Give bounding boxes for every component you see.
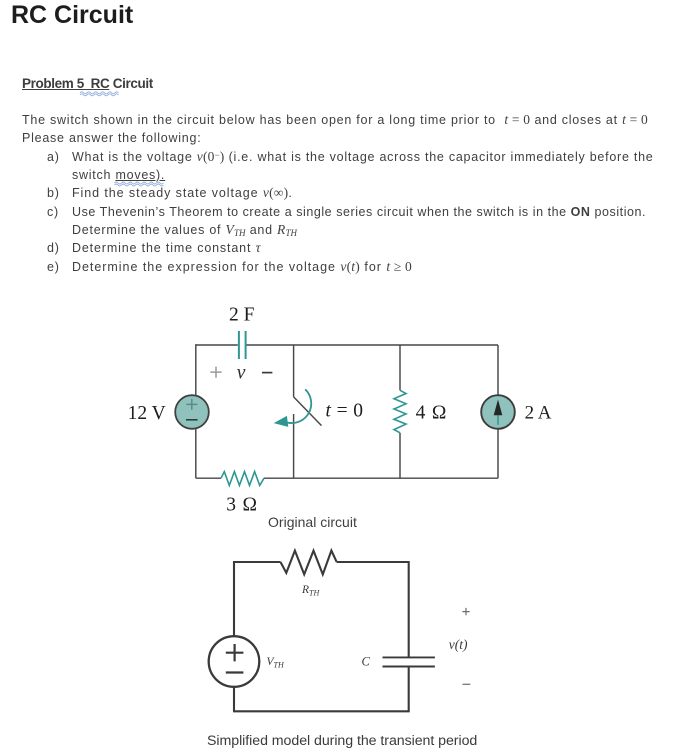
page title	[11, 2, 133, 29]
resistor RTH zigzag	[281, 551, 337, 575]
svg-text:2 A: 2 A	[525, 403, 552, 424]
grammar wavy under "moves)."	[115, 182, 164, 186]
svg-text:C: C	[362, 655, 371, 669]
wire left upper	[195, 344, 197, 396]
voltage source plus	[186, 399, 197, 410]
label 2 A	[525, 403, 552, 424]
wire top-left (node A to capacitor)	[196, 344, 238, 346]
wire switch branch upper	[293, 345, 295, 397]
label 3 ohm	[226, 495, 258, 516]
label minus (vt polarity)	[463, 683, 471, 685]
svg-text:t = 0: t = 0	[326, 400, 364, 421]
wire right lower	[497, 428, 499, 478]
paragraph line 2	[22, 131, 201, 145]
wire right upper	[497, 345, 499, 396]
current source arrow head	[494, 400, 503, 416]
switch arrow head	[274, 416, 289, 427]
wire bottom-left segment	[196, 477, 221, 479]
list c	[47, 205, 59, 219]
svg-text:2 F: 2 F	[229, 305, 255, 326]
paragraph line 1	[22, 113, 648, 127]
wire c2 top-left to resistor	[233, 561, 281, 563]
label + (vt polarity)	[462, 608, 469, 615]
label VTH	[267, 656, 285, 670]
list b	[47, 186, 60, 200]
resistor 4 ohm zigzag	[394, 390, 406, 433]
label minus (cap polarity)	[262, 372, 272, 374]
problem heading	[22, 76, 153, 92]
label 12 V	[128, 403, 166, 424]
current source arrow shaft	[497, 413, 499, 425]
caption: Original circuit	[268, 515, 357, 529]
wire bottom-right segment	[264, 477, 498, 479]
voltage source minus	[186, 419, 198, 421]
VTH plus sign	[226, 644, 244, 661]
svg-text:12 V: 12 V	[128, 403, 166, 424]
grammar wavy under heading "5 RC"	[80, 92, 119, 96]
wire switch branch lower	[293, 414, 295, 478]
voltage source 12V circle	[175, 395, 209, 429]
svg-text:RTH: RTH	[301, 584, 320, 598]
wire 4-ohm branch upper	[399, 345, 401, 390]
wire c2 resistor to top-right	[337, 561, 409, 563]
wire c2 bottom	[233, 710, 410, 712]
wire c2 left lower	[233, 687, 235, 712]
resistor 3 ohm zigzag	[221, 472, 264, 486]
wire left lower	[195, 428, 197, 478]
capacitor C plate top	[383, 656, 435, 658]
wire c2 right lower	[408, 667, 410, 712]
label RTH	[301, 584, 320, 598]
wire 4-ohm branch lower	[399, 433, 401, 478]
VTH minus sign	[226, 671, 244, 673]
list d	[47, 241, 60, 255]
label v (cap voltage)	[237, 362, 246, 383]
caption: Simplified model	[207, 734, 477, 748]
list a	[47, 150, 60, 164]
capacitor C plate bottom	[383, 666, 435, 668]
label v(t)	[449, 637, 468, 652]
capacitor C 2F plates	[239, 331, 246, 359]
label + (cap polarity)	[210, 367, 221, 378]
wire c2 right upper	[408, 561, 410, 657]
label t = 0	[326, 400, 364, 421]
svg-text:v(t): v(t)	[449, 637, 468, 652]
svg-text:VTH: VTH	[267, 656, 285, 670]
switch closing arc	[287, 389, 311, 423]
svg-text:4 Ω: 4 Ω	[416, 403, 448, 424]
wire c2 left upper	[233, 561, 235, 636]
list e	[47, 260, 60, 274]
label C	[362, 655, 371, 669]
current source 2A circle	[481, 395, 515, 429]
svg-text:v: v	[237, 362, 246, 383]
switch blade	[294, 397, 322, 426]
label 2 F	[229, 305, 255, 326]
label 4 ohm	[416, 403, 448, 424]
svg-text:3 Ω: 3 Ω	[226, 495, 258, 516]
voltage source VTH circle	[209, 636, 260, 687]
wire top-right (capacitor to right corner)	[246, 344, 498, 346]
